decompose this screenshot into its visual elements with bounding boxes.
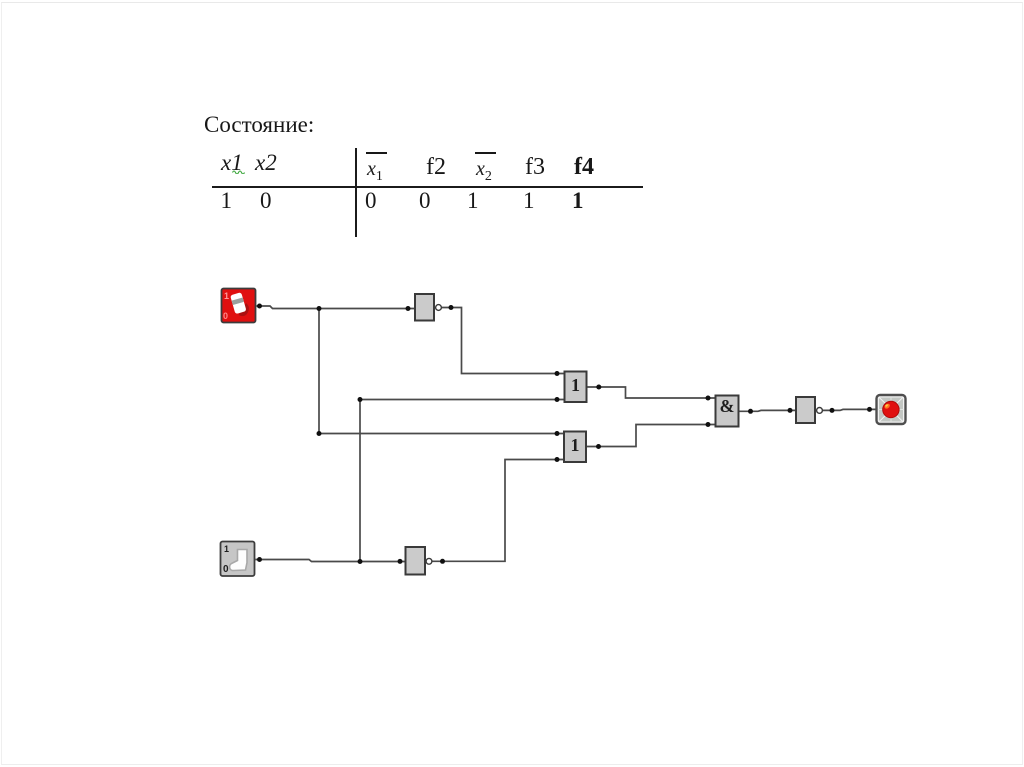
svg-text:0: 0 xyxy=(223,311,228,321)
svg-text:1: 1 xyxy=(224,291,229,301)
svg-text:1: 1 xyxy=(571,375,580,395)
svg-text:0: 0 xyxy=(223,564,229,575)
svg-text:&: & xyxy=(720,396,735,416)
svg-text:1: 1 xyxy=(571,435,580,455)
svg-text:1: 1 xyxy=(224,544,229,554)
